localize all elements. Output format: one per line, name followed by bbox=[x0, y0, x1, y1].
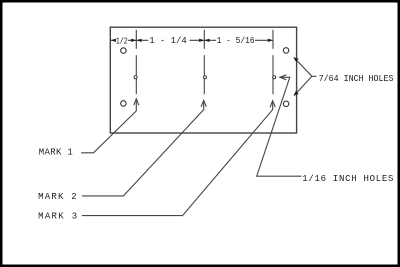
svg-text:1/16 INCH HOLES: 1/16 INCH HOLES bbox=[302, 174, 393, 184]
svg-text:1 - 1/4: 1 - 1/4 bbox=[149, 35, 187, 46]
svg-text:1 - 5/16: 1 - 5/16 bbox=[217, 35, 255, 46]
svg-text:7/64 INCH HOLES: 7/64 INCH HOLES bbox=[319, 74, 394, 84]
svg-text:MARK 2: MARK 2 bbox=[38, 192, 77, 202]
svg-text:MARK 3: MARK 3 bbox=[38, 212, 77, 222]
svg-text:1/2: 1/2 bbox=[116, 37, 128, 47]
svg-text:MARK 1: MARK 1 bbox=[39, 148, 73, 158]
